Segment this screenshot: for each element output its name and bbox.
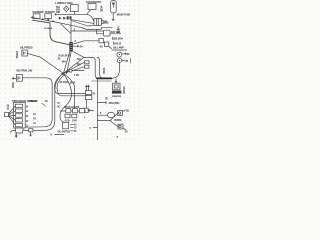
- connector right boxes b: [85, 96, 91, 100]
- svg-text:35 16GA: 35 16GA: [44, 27, 53, 30]
- row box 3: [79, 109, 84, 113]
- svg-text:35343: 35343: [15, 51, 19, 59]
- connector ring B: [118, 124, 123, 129]
- U channel riser a: [54, 73, 87, 93]
- wire boxes down: [85, 100, 87, 109]
- TSM bottom shell: [15, 128, 23, 133]
- relay R2 base: [112, 91, 121, 94]
- wire G left: [97, 30, 104, 34]
- wire big loop down b: [11, 74, 63, 133]
- tick to loop: [42, 103, 46, 106]
- lamp LP1 bar: [112, 49, 127, 51]
- wire G right label: [110, 33, 121, 35]
- connector F2: [85, 61, 89, 64]
- node ring: [69, 69, 72, 72]
- wire U2 drop: [74, 11, 76, 14]
- svg-text:3534: 3534: [102, 67, 106, 74]
- wire thick bus: [97, 77, 111, 79]
- TSM fan node: [5, 113, 9, 117]
- loop inline tick: [29, 129, 33, 132]
- wire CN1 fan right: [72, 51, 84, 57]
- svg-text:STARTER: STARTER: [112, 95, 122, 98]
- hub fan F1: [63, 57, 98, 78]
- wire bus L1: [55, 14, 87, 16]
- horn H1: [88, 4, 96, 10]
- svg-text:OIL PRESS: OIL PRESS: [20, 47, 33, 50]
- arrow a2: [63, 17, 66, 20]
- wire LP1 down: [111, 63, 120, 79]
- svg-text:35 34: 35 34: [70, 82, 76, 85]
- wire LP1 stub 62: [122, 53, 126, 55]
- wire branch fan right: [98, 114, 118, 127]
- svg-text:(35) 3534: (35) 3534: [113, 37, 124, 40]
- battery box: [84, 108, 88, 112]
- svg-text:3534C: 3534C: [122, 86, 126, 94]
- svg-text:35A: 35A: [77, 63, 81, 66]
- svg-text:34A: 34A: [77, 58, 81, 61]
- link C43: [103, 43, 111, 49]
- connector C43b: [104, 42, 108, 46]
- svg-text:BAT 30A: BAT 30A: [111, 31, 120, 34]
- connector E: [94, 18, 101, 25]
- TSM pin 3: [15, 114, 22, 117]
- sensor K1: [22, 50, 28, 56]
- row box 2: [73, 109, 78, 113]
- arrow on line A: [42, 18, 45, 20]
- TSM fan wires: [9, 106, 16, 125]
- relay R2: [113, 83, 120, 90]
- wire E step: [88, 27, 113, 29]
- wire sloped line B into drop: [33, 20, 70, 45]
- wire N1 arrow left: [12, 78, 16, 80]
- arrow on line A2: [52, 20, 55, 22]
- svg-text:OIL SWITCH: OIL SWITCH: [58, 131, 71, 133]
- switch N1: [16, 75, 22, 82]
- component P5: [63, 122, 69, 128]
- svg-text:NEUTRAL SW: NEUTRAL SW: [17, 70, 33, 73]
- hub fan F2: [63, 62, 84, 73]
- wire hub to row2: [63, 73, 74, 108]
- wire sloped line A to connector E: [31, 17, 88, 30]
- splice block SP2: [70, 16, 72, 19]
- svg-text:34B: 34B: [56, 11, 60, 14]
- wire CN1 stub right: [73, 45, 79, 47]
- svg-text:34 3534: 34 3534: [60, 81, 69, 84]
- wire tick stub down: [30, 132, 31, 136]
- wire hub to E mid: [72, 20, 94, 24]
- relay G: [104, 30, 110, 36]
- wire junction left tick: [93, 127, 98, 129]
- svg-text:MAXI-FUSE: MAXI-FUSE: [117, 13, 131, 17]
- wire to pair C43: [74, 41, 100, 44]
- hub fan F3: [63, 67, 84, 74]
- row2 box 1: [65, 114, 70, 118]
- svg-text:GYR: GYR: [72, 120, 77, 122]
- diode D5: [64, 6, 69, 11]
- TSM pin 2: [15, 109, 22, 112]
- module U2: [70, 5, 78, 12]
- socket LP1: [117, 58, 121, 62]
- TSM pin 5: [15, 123, 22, 126]
- wire F1 drop arrow: [112, 13, 114, 21]
- U channel riser b: [57, 75, 89, 96]
- svg-text:34A: 34A: [62, 61, 67, 64]
- wire branch to box B31: [71, 30, 104, 32]
- svg-text:35A: 35A: [56, 6, 60, 9]
- wire ringA stub: [123, 110, 126, 112]
- TSM pin 1: [15, 104, 22, 107]
- wire 5 branch pill: [98, 114, 108, 116]
- connector right boxes a: [85, 91, 91, 95]
- module TSM shell: [14, 102, 26, 128]
- wire bus lower: [92, 80, 112, 82]
- switch S1: [33, 14, 40, 19]
- svg-text:OIL LAMP: OIL LAMP: [113, 47, 124, 50]
- wire socket stub 35: [122, 60, 125, 62]
- wire stub to relay R2: [115, 79, 117, 83]
- switch S2: [45, 14, 52, 19]
- fuse F1: [111, 1, 117, 13]
- wire K1 to hub: [27, 53, 63, 73]
- wire N1 right into harness: [22, 78, 52, 127]
- svg-text:3534 (BK): 3534 (BK): [109, 102, 120, 105]
- wire L1 arc down: [87, 14, 94, 21]
- svg-text:3534M: 3534M: [114, 119, 121, 122]
- wire hub vertical V1: [70, 20, 72, 42]
- wire CN1 fan mid: [67, 51, 72, 74]
- row wire: [60, 110, 85, 112]
- arrow a1: [59, 17, 62, 20]
- row2 box 2: [72, 114, 77, 118]
- lamp LP1: [117, 52, 122, 57]
- wire F5 wavy: [60, 73, 72, 122]
- svg-text:BK/GRY: BK/GRY: [29, 100, 38, 103]
- connector CN1: [69, 42, 72, 51]
- wire TSM down arrow: [15, 133, 17, 137]
- wire stub S2: [48, 19, 49, 21]
- wire H1 to L1: [87, 10, 91, 15]
- TSM pin 4: [15, 119, 22, 122]
- wire main vertical: [97, 79, 99, 140]
- hub blob: [62, 73, 64, 75]
- wire arrow into box: [88, 110, 93, 112]
- wire through ring: [63, 70, 84, 73]
- svg-text:3534: 3534: [100, 5, 104, 12]
- connector C43a: [99, 38, 103, 42]
- wire hub to E lower: [71, 21, 94, 27]
- stub rows right: [70, 124, 73, 130]
- connector pill: [108, 112, 115, 117]
- connector ring A: [118, 111, 123, 116]
- row box 1: [66, 109, 71, 113]
- wire loop vertical 3534: [97, 57, 102, 78]
- svg-text:3534: 3534: [11, 82, 15, 88]
- wire CN1 fan left: [63, 51, 70, 73]
- wire ringB stub: [123, 128, 126, 130]
- splice block SP1: [67, 16, 69, 19]
- svg-text:1 BRN/GY BKN: 1 BRN/GY BKN: [55, 1, 73, 5]
- svg-text:343 35: 343 35: [114, 42, 122, 45]
- wire tick branch: [98, 101, 107, 104]
- svg-text:SC: SC: [57, 107, 60, 109]
- svg-text:7 36: 7 36: [74, 73, 79, 77]
- wire diagonal D1: [61, 24, 71, 33]
- connector F3: [85, 65, 89, 68]
